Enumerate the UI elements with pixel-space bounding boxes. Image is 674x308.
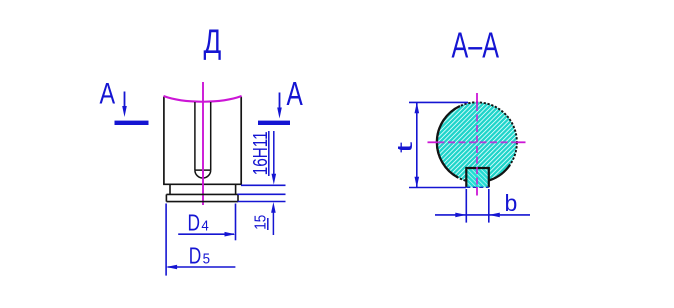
circle outline solid arcs: [437, 106, 460, 178]
step 1: [170, 184, 236, 194]
keyway slot: [195, 102, 211, 178]
key square (hatched): [466, 168, 489, 187]
dimension D4: line with right arrow: [178, 233, 234, 235]
key square bottom dashed edge: [466, 186, 489, 188]
dimension 15: dimension line with up arrow: [272, 210, 274, 235]
section marker A right: cutting plane bar: [258, 121, 290, 125]
collar band: [166, 194, 238, 201]
svg-text:D: D: [188, 210, 201, 236]
dimension 15: underline: [267, 218, 269, 230]
section marker A right: arrow: [279, 93, 281, 110]
svg-text:b: b: [505, 190, 518, 216]
svg-text:t: t: [393, 142, 417, 153]
dimension b: extension lines: [466, 189, 489, 223]
section marker A left: arrow: [124, 92, 126, 109]
dimension b: dimension line: [435, 214, 530, 216]
svg-text:А: А: [287, 77, 304, 113]
svg-text:4: 4: [201, 218, 208, 235]
svg-text:А: А: [100, 77, 116, 110]
extension lines of steps (blue): [238, 185, 286, 201]
body top arc (magenta): [164, 96, 242, 102]
extension line D4 (right): [235, 204, 237, 241]
extension line D5 (left): [165, 204, 167, 276]
vertical centerline A-A (magenta): [476, 93, 478, 104]
horizontal centerline A-A (magenta): [428, 141, 438, 143]
section marker A left: cutting plane bar: [115, 121, 149, 125]
dimension 16Н11: dimension line with down arrow: [273, 131, 275, 176]
dimension t: dimension line with arrows: [416, 102, 418, 187]
shaft section circle (hatched): [437, 102, 517, 182]
svg-text:Д: Д: [204, 24, 222, 61]
svg-text:А–А: А–А: [452, 25, 500, 66]
dimension t: extension lines: [409, 102, 468, 187]
dimension 16Н11: underline: [268, 131, 270, 176]
dimension b: arrows (outside, pointing in): [455, 213, 466, 218]
svg-text:D: D: [189, 242, 202, 268]
centerline (magenta): [202, 82, 204, 205]
svg-text:15: 15: [253, 215, 270, 230]
shaft body outline: [163, 97, 242, 185]
svg-text:5: 5: [203, 250, 210, 267]
dimension D5: line with left arrow: [168, 266, 236, 268]
